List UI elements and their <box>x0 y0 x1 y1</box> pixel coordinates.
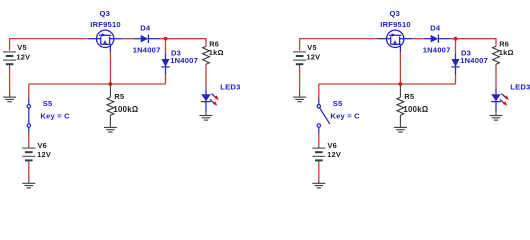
wire rail corner down to switch (right) <box>318 84 320 99</box>
svg-text:R5: R5 <box>404 92 414 101</box>
wire bottom rail (right) <box>319 83 456 85</box>
junction node at R5 top <box>109 82 113 86</box>
svg-text:1N4007: 1N4007 <box>423 45 451 54</box>
resistor R5 <box>107 84 114 125</box>
ground below V5 (right) <box>293 94 306 102</box>
battery V5 <box>3 52 16 68</box>
junction node at D3 tap <box>164 37 168 41</box>
ground below R5 (right) <box>394 125 407 132</box>
diode D4 <box>134 35 160 43</box>
svg-text:Q3: Q3 <box>100 9 111 18</box>
resistor R6 <box>203 46 210 66</box>
ground below R5 <box>104 125 117 132</box>
led arrow 2 <box>210 99 218 106</box>
led LED3 (right) <box>491 89 501 111</box>
wire junction down to D3 <box>165 39 167 54</box>
switch S5 (open, right) <box>317 99 330 134</box>
junction node at R5 top (right) <box>399 82 403 86</box>
svg-text:100kΩ: 100kΩ <box>403 105 428 114</box>
led LED3 <box>201 89 211 111</box>
wire R6 to LED3 (right) <box>495 66 497 89</box>
svg-text:1N4007: 1N4007 <box>460 56 488 65</box>
switch S5 (closed) <box>27 99 30 134</box>
led arrow 1 <box>211 94 219 101</box>
wire V6 to ground (right) <box>318 163 320 181</box>
svg-text:1N4007: 1N4007 <box>170 56 198 65</box>
wire R6 to LED3 <box>205 66 207 89</box>
wire D4 to top-right corner and down to R6 <box>160 39 206 46</box>
wire D4 to top-right corner and down to R6 (right) <box>450 39 496 46</box>
wire bottom rail <box>29 83 166 85</box>
svg-text:D4: D4 <box>140 24 151 33</box>
svg-text:IRF9510: IRF9510 <box>90 20 121 29</box>
resistor R5 (right) <box>397 84 404 125</box>
wire D3 bottom to rail <box>165 75 167 84</box>
op: mosfet Q3 IRF9510 <box>88 30 122 52</box>
wire gate down to rail (right) <box>399 52 401 84</box>
wire gate down to rail <box>109 52 111 84</box>
svg-text:1kΩ: 1kΩ <box>499 48 514 57</box>
svg-text:LED3: LED3 <box>220 83 240 92</box>
ground below V6 <box>22 181 35 188</box>
wire junction down to D3 (right) <box>455 39 457 54</box>
svg-text:Key = C: Key = C <box>40 112 70 121</box>
svg-text:Q3: Q3 <box>390 9 401 18</box>
svg-text:V6: V6 <box>38 141 48 150</box>
battery V6 <box>22 146 35 163</box>
svg-text:LED3: LED3 <box>510 83 530 92</box>
svg-text:12V: 12V <box>16 53 30 62</box>
wire switch to V6 <box>28 133 30 146</box>
svg-text:100kΩ: 100kΩ <box>113 105 138 114</box>
wire Q3 drain to D4 <box>122 38 134 40</box>
wire D3 bottom to rail (right) <box>455 75 457 84</box>
ground below V5 <box>3 94 16 102</box>
svg-text:12V: 12V <box>306 53 320 62</box>
diode D3 <box>161 54 169 75</box>
diode D3 (right) <box>451 54 459 75</box>
wire rail corner down to switch <box>28 84 30 99</box>
battery V6 (right) <box>312 146 325 163</box>
svg-text:1kΩ: 1kΩ <box>209 48 224 57</box>
wire Q3 drain to D4 (right) <box>412 38 424 40</box>
wire switch to V6 (right) <box>318 133 320 146</box>
resistor R6 (right) <box>493 46 500 66</box>
led arrow 1 (right) <box>501 94 509 101</box>
ground below LED3 <box>200 111 213 120</box>
op: mosfet Q3 IRF9510 (right) <box>378 30 412 52</box>
svg-text:V5: V5 <box>307 43 317 52</box>
wire V5 top to rail <box>10 39 88 51</box>
ground below LED3 (right) <box>490 111 503 120</box>
wire V5 top to rail (right) <box>300 39 378 51</box>
svg-text:R5: R5 <box>114 92 124 101</box>
svg-text:12V: 12V <box>37 150 51 159</box>
battery V5 (right) <box>293 52 306 68</box>
svg-text:V6: V6 <box>328 141 338 150</box>
svg-text:Key = C: Key = C <box>330 112 360 121</box>
svg-text:S5: S5 <box>43 99 53 108</box>
svg-text:V5: V5 <box>17 43 27 52</box>
wire V5 bottom to ground (right) <box>299 67 301 94</box>
diode D4 (right) <box>424 35 450 43</box>
svg-text:S5: S5 <box>333 99 343 108</box>
ground below V6 (right) <box>312 181 325 188</box>
svg-text:D4: D4 <box>430 24 441 33</box>
wire V6 to ground <box>28 163 30 181</box>
junction node at D3 tap (right) <box>454 37 458 41</box>
led arrow 2 (right) <box>500 99 508 106</box>
svg-text:IRF9510: IRF9510 <box>380 20 411 29</box>
svg-text:12V: 12V <box>327 150 341 159</box>
svg-text:1N4007: 1N4007 <box>133 45 161 54</box>
wire V5 bottom to ground <box>9 67 11 94</box>
